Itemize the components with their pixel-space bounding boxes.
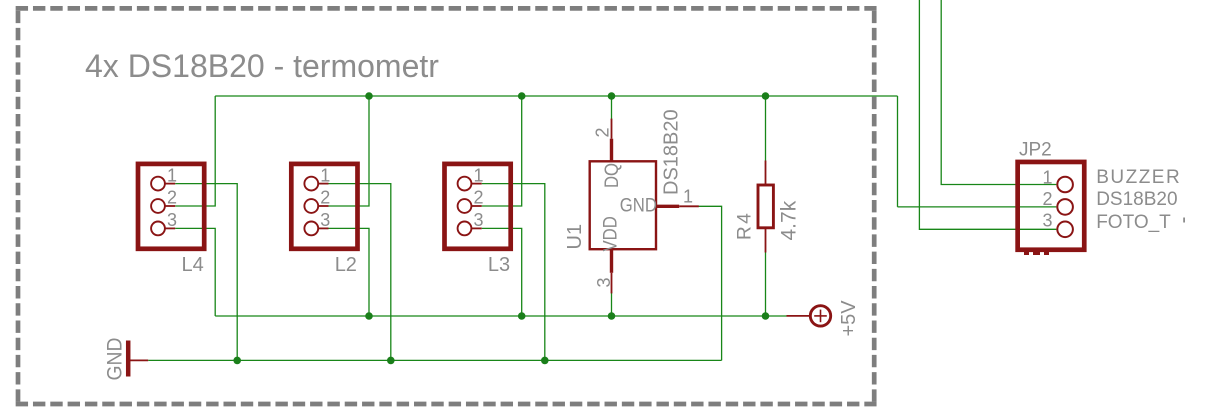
wire DQ to JP2 vertical — [897, 96, 899, 207]
junction L2.3 on +5V bus — [365, 312, 373, 320]
svg-text:1: 1 — [320, 166, 330, 186]
ground symbol — [128, 341, 148, 377]
frame dashed border — [16, 8, 877, 404]
wire GND bus — [148, 359, 721, 361]
wire +5V bus — [215, 315, 786, 317]
junction U1 VDD on +5V bus — [608, 312, 616, 320]
svg-text:1: 1 — [474, 166, 484, 186]
svg-text:2: 2 — [167, 188, 177, 208]
connector L4 — [138, 164, 204, 249]
wire L3 pin3 to +5V — [482, 228, 522, 316]
resistor R4 — [758, 161, 773, 253]
junction L3.1 on GND bus — [541, 357, 549, 365]
wire R4 bottom — [765, 253, 767, 317]
svg-text:3: 3 — [594, 277, 614, 287]
svg-text:3: 3 — [1042, 211, 1052, 231]
svg-text:DQ: DQ — [601, 163, 622, 188]
clipped tick after FOTO_T — [1183, 218, 1185, 223]
connector JP2 — [1018, 162, 1085, 250]
svg-text:R4: R4 — [735, 211, 756, 240]
svg-text:FOTO_T: FOTO_T — [1096, 212, 1171, 233]
svg-text:3: 3 — [474, 210, 484, 230]
connector L3 — [445, 164, 511, 249]
svg-text:VDD: VDD — [600, 216, 621, 251]
junction L4.1 on GND bus — [233, 357, 241, 365]
wire L2 pin3 to +5V — [329, 228, 370, 316]
wire U1 GND to bus — [698, 206, 722, 360]
wire U1 VDD pin to bus — [611, 293, 613, 317]
L3 pin numbers — [474, 166, 484, 230]
svg-text:3: 3 — [320, 210, 330, 230]
svg-text:L2: L2 — [335, 254, 357, 276]
op-amp U1 box — [590, 119, 699, 294]
svg-text:2: 2 — [1042, 189, 1052, 209]
+5V supply symbol — [787, 306, 831, 326]
junction U1 DQ on DQ bus — [608, 92, 616, 100]
wire L2 pin1 to GND — [329, 184, 391, 361]
JP2 clipped value text — [1024, 252, 1049, 255]
svg-text:3: 3 — [167, 210, 177, 230]
junction R4 on DQ bus — [762, 92, 770, 100]
svg-text:1: 1 — [1042, 168, 1052, 188]
svg-text:+5V: +5V — [838, 300, 860, 337]
L4 pin numbers — [167, 166, 177, 230]
wire R4 top — [765, 96, 767, 161]
wire L3 pin2 to DQ — [482, 96, 522, 206]
svg-text:1: 1 — [683, 187, 693, 207]
wire L2 pin2 to DQ — [329, 96, 370, 206]
svg-text:L4: L4 — [182, 254, 204, 276]
svg-text:1: 1 — [167, 166, 177, 186]
wire BUZZER to JP2 pin1 — [941, 0, 1056, 185]
wire L4 pin3 to +5V — [175, 228, 215, 316]
junction L2.1 on GND bus — [387, 357, 395, 365]
wire L4 pin1 to GND — [175, 184, 237, 361]
svg-text:GND: GND — [620, 195, 657, 216]
svg-text:JP2: JP2 — [1019, 140, 1052, 161]
junction L2.2 on DQ bus — [365, 92, 373, 100]
svg-text:2: 2 — [474, 188, 484, 208]
wire FOTO_T to JP2 pin3 — [919, 0, 1056, 229]
wire DQ to JP2 horizontal — [898, 206, 1057, 208]
JP2 pin numbers — [1042, 168, 1052, 231]
wire U1 DQ pin to bus — [611, 96, 613, 120]
junction L3.2 on DQ bus — [518, 92, 526, 100]
svg-text:DS18B20: DS18B20 — [1096, 189, 1177, 210]
wire L3 pin1 to GND — [482, 184, 545, 361]
connector L2 — [291, 164, 357, 249]
junction L3.3 on +5V bus — [518, 312, 526, 320]
svg-text:L3: L3 — [488, 254, 510, 276]
svg-text:GND: GND — [104, 338, 127, 381]
wire L4 pin2 to DQ — [175, 96, 215, 206]
junction R4 on +5V bus — [762, 312, 770, 320]
svg-text:4.7k: 4.7k — [778, 200, 801, 240]
svg-text:BUZZER: BUZZER — [1096, 167, 1181, 188]
L2 pin numbers — [320, 166, 330, 230]
svg-text:U1: U1 — [564, 224, 586, 250]
wire DQ top bus — [215, 95, 897, 97]
svg-text:2: 2 — [320, 188, 330, 208]
svg-text:2: 2 — [593, 127, 613, 137]
svg-text:DS18B20: DS18B20 — [661, 109, 683, 195]
svg-text:4x DS18B20 - termometr: 4x DS18B20 - termometr — [85, 48, 439, 84]
